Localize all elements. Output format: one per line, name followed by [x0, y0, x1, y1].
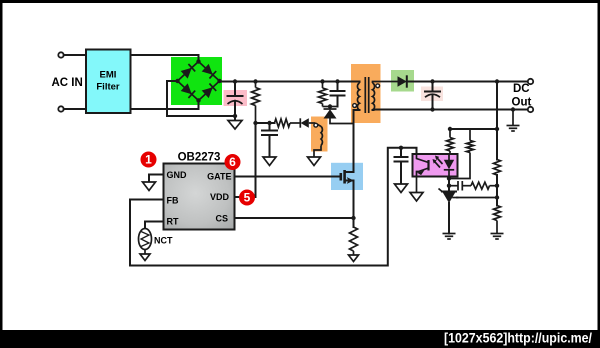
bulk capacitor C1 (polarized)	[228, 82, 243, 119]
snubber capacitor C3	[331, 82, 345, 107]
ground DC output (earth)	[507, 107, 520, 131]
diode D4 (output rectifier)	[398, 76, 407, 86]
svg-text:CS: CS	[215, 214, 228, 224]
secondary winding	[373, 83, 375, 110]
wire R9 to ground	[496, 221, 498, 234]
resistor R8 (divider top)	[494, 160, 501, 176]
diode D3 (clamp, cathode up)	[324, 107, 354, 124]
startup resistor R1	[252, 82, 260, 124]
diode bottom-left (anode left vertex, cathode bottom vertex)	[181, 83, 192, 94]
highlight MOSFET	[331, 163, 363, 190]
pin callout 6	[225, 154, 241, 170]
svg-text:Out: Out	[512, 97, 532, 109]
diode top-left (anode left vertex, cathode top vertex)	[181, 68, 192, 79]
ground GND pin (triangle)	[143, 182, 156, 191]
DC Out terminals and label	[512, 79, 534, 112]
output capacitor C4 (polarized)	[425, 79, 440, 111]
svg-text:DC: DC	[513, 83, 530, 95]
snubber resistor R3	[319, 82, 327, 107]
ground TL431 (earth)	[443, 234, 456, 240]
highlight transformer	[351, 64, 381, 123]
wire divider mid	[495, 175, 499, 206]
svg-text:NCT: NCT	[154, 236, 173, 246]
wire AC bottom terminal to EMI filter	[64, 108, 86, 110]
highlight aux winding	[311, 117, 328, 152]
resistor R9 (divider bottom)	[494, 206, 501, 221]
wire DC bus from bridge + to transformer primary	[220, 81, 360, 83]
svg-text:GATE: GATE	[207, 172, 231, 182]
wire bridge negative loop to bulk cap bottom	[167, 81, 235, 116]
svg-text:VDD: VDD	[210, 192, 230, 202]
svg-text:GND: GND	[167, 170, 188, 180]
wire RT pin	[145, 222, 164, 230]
wire R10 to divider	[490, 185, 498, 187]
AC input terminal top	[58, 52, 63, 57]
wire EMI top output to bridge top vertex	[131, 55, 199, 62]
highlight output capacitor	[421, 87, 443, 102]
capacitor C5 (FB filter)	[395, 146, 408, 184]
aux winding L1	[314, 123, 323, 157]
svg-text:Filter: Filter	[96, 82, 120, 93]
transformer T1	[353, 77, 433, 163]
ground C5 (triangle)	[395, 184, 408, 193]
wire R4 to ground	[353, 251, 355, 255]
wire TL431 ref to divider	[456, 197, 497, 199]
diode D2 (VDD rectifier, cathode left)	[300, 118, 315, 127]
secondary bottom lead	[373, 109, 433, 112]
resistor R2 (VDD series)	[275, 119, 291, 127]
optocoupler U2	[413, 154, 458, 177]
diode top-right (anode top vertex, cathode right vertex)	[202, 64, 213, 75]
primary bottom lead to drain	[354, 110, 360, 163]
wire AC top terminal to EMI filter	[64, 54, 86, 56]
wire snubber join	[323, 106, 338, 108]
wire VDD node	[256, 122, 275, 124]
wire GATE pin to MOSFET gate	[235, 176, 341, 178]
pin callout 5	[239, 190, 255, 206]
junction node snubber C top	[335, 79, 339, 83]
wire R2 to D2 cathode	[290, 122, 300, 124]
wire CS pin to MOSFET source	[235, 217, 354, 219]
wire NCT to ground	[144, 250, 146, 255]
wire secondary bias rail	[448, 79, 499, 159]
wire TL431 anode to ground	[448, 203, 450, 234]
resistor R4 (current sense)	[350, 227, 358, 251]
pin callout 1	[141, 152, 157, 168]
junction node snubber R top	[320, 79, 324, 83]
junction node startup resistor top	[253, 79, 257, 83]
highlight bridge rectifier	[171, 57, 222, 105]
junction dots at bridge vertices	[196, 59, 200, 63]
resistor R6 (LED series)	[447, 129, 454, 154]
core	[364, 77, 366, 113]
wire DC+ rail	[407, 81, 528, 83]
svg-text:AC IN: AC IN	[52, 77, 83, 89]
wire MOSFET source down	[353, 188, 355, 227]
phototransistor	[427, 160, 429, 171]
bridge rectifier BD1	[175, 59, 221, 102]
ground divider (earth)	[491, 234, 504, 240]
wire opto emitter to ground	[416, 177, 418, 193]
highlight bulk capacitor	[224, 90, 248, 106]
svg-text:FB: FB	[167, 196, 179, 206]
light arrows	[436, 157, 443, 164]
LED (cathode down)	[448, 154, 450, 160]
capacitor C2 (VDD)	[262, 123, 277, 157]
transistor Q1 (MOSFET)	[341, 163, 354, 190]
svg-text:1: 1	[145, 153, 152, 167]
svg-text:[1027x562]http://upic.me/: [1027x562]http://upic.me/	[444, 331, 592, 346]
wire GND pin	[149, 175, 164, 183]
AC input terminal bottom	[58, 106, 63, 111]
ground C2 (triangle)	[263, 157, 276, 166]
ground aux winding (triangle)	[308, 157, 321, 166]
resistor R7 (LED bias)	[449, 129, 474, 179]
EMI filter block	[86, 50, 131, 114]
wire FB pin loop	[130, 148, 417, 266]
junction node bulk cap top	[233, 79, 237, 83]
ground R4 (triangle)	[349, 255, 359, 262]
svg-text:5: 5	[244, 191, 251, 205]
capacitor C6 (compensation)	[449, 181, 471, 191]
ground NCT (triangle)	[140, 254, 150, 261]
ground opto emitter (triangle)	[410, 193, 423, 202]
svg-text:OB2273: OB2273	[178, 152, 221, 164]
svg-text:EMI: EMI	[100, 70, 117, 81]
wire DC- rail	[433, 109, 529, 111]
highlight output diode	[391, 70, 414, 92]
op IC U1 OB2273	[164, 152, 235, 230]
primary winding	[359, 82, 361, 84]
wire VDD node to VDD pin	[235, 123, 256, 197]
shunt regulator U3 (TL431)	[439, 189, 459, 204]
diode bottom-right (anode bottom vertex, cathode right vertex)	[202, 87, 213, 98]
thermistor NCT	[139, 229, 173, 250]
wire opto LED cathode to TL431	[447, 176, 451, 191]
ground bulk cap (triangle)	[228, 116, 242, 129]
primary phase dot	[353, 104, 357, 108]
junction node VDD cap	[267, 121, 271, 125]
wire EMI bottom output to bridge bottom vertex	[131, 101, 199, 110]
svg-text:6: 6	[229, 155, 236, 169]
frame border	[0, 0, 600, 3]
secondary phase dot	[376, 84, 380, 88]
svg-text:RT: RT	[167, 217, 179, 227]
resistor R10 (compensation)	[471, 182, 490, 189]
